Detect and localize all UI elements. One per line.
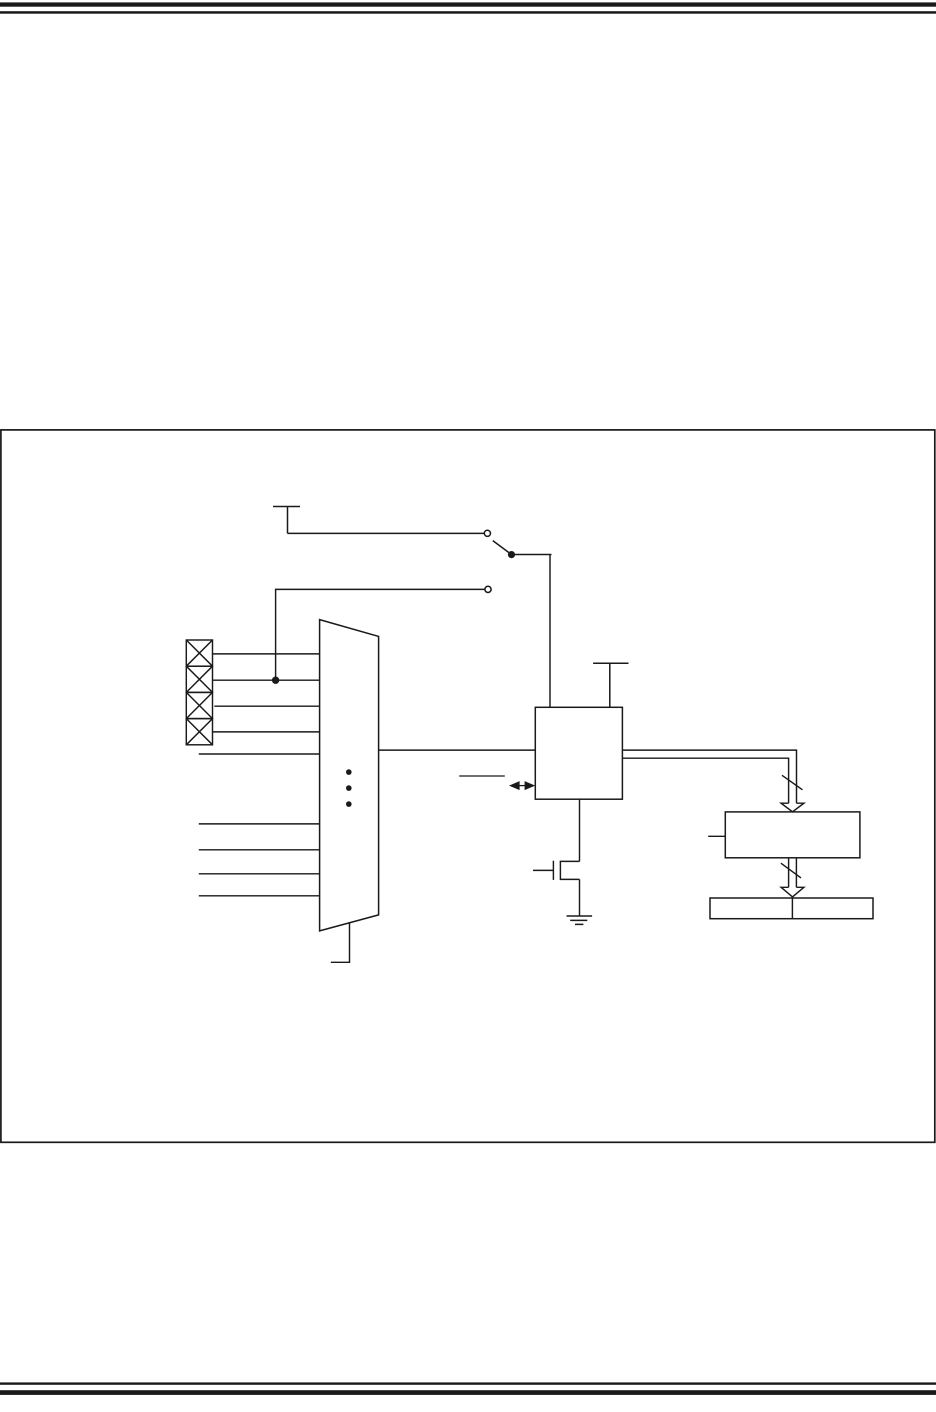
figure frame: [1, 430, 935, 1142]
bus width slash 1: [782, 775, 803, 790]
reference pin VREF: [593, 663, 628, 707]
wire switch pole to converter: [512, 555, 552, 708]
transistor Q1 channel: [560, 861, 579, 879]
page header rule thin: [0, 11, 936, 14]
wire mux output VAIN: [379, 749, 536, 751]
wire VDD to switch: [288, 532, 485, 534]
wire channel 3: [214, 705, 319, 707]
page header rule thick: [0, 2, 936, 6]
analog multiplexer U1: [320, 620, 379, 931]
mux ellipsis dots: [346, 769, 352, 807]
transistor Q1 gate lead: [533, 869, 553, 871]
wire source to ground: [579, 879, 581, 916]
switch S1 pole junction: [508, 551, 515, 558]
wire channel 6: [199, 823, 320, 825]
bus arrowhead 1: [781, 803, 804, 812]
bus converter to register outer line: [622, 750, 796, 803]
wire converter to transistor drain: [579, 799, 581, 861]
bus width slash 2: [781, 863, 801, 878]
wire channel 4: [213, 731, 320, 733]
wire channel 8: [199, 873, 320, 875]
ground: [567, 916, 593, 924]
mux select stub: [331, 922, 350, 962]
bidirectional arrow GO/DONE: [509, 781, 535, 790]
input pad AN1: [186, 666, 212, 692]
page footer rule thick: [0, 1390, 936, 1395]
transistor Q1 gate bar: [552, 861, 554, 880]
switch S1 blade: [493, 541, 512, 555]
wire channel 1: [213, 653, 320, 655]
wire channel 9: [199, 895, 320, 897]
input pad AN2: [186, 692, 212, 718]
wire channel 7: [199, 849, 320, 851]
wire channel 2: [213, 679, 320, 681]
power pin VDD: [273, 507, 300, 534]
wire throw 2 to channel AN2: [276, 589, 485, 680]
register box lead line: [708, 835, 725, 837]
result register box ADRESH:ADRESL: [710, 898, 873, 919]
result register divider: [791, 898, 793, 919]
switch S1 throw contact 1: [484, 530, 490, 536]
bus register to result verticals: [789, 858, 797, 888]
bus arrowhead 2: [781, 887, 804, 897]
switch S1 throw contact 2: [485, 586, 491, 592]
GO/DONE overbar: [459, 775, 505, 777]
page footer rule thin: [0, 1382, 936, 1384]
register box ADRES: [725, 812, 860, 858]
bus converter to register inner line: [622, 758, 788, 803]
input pad AN3: [186, 719, 212, 745]
wire channel 5: [199, 753, 320, 755]
junction dot on AN2 wire: [272, 677, 279, 684]
A/D converter U2: [535, 707, 622, 799]
input pad AN0: [186, 640, 212, 666]
